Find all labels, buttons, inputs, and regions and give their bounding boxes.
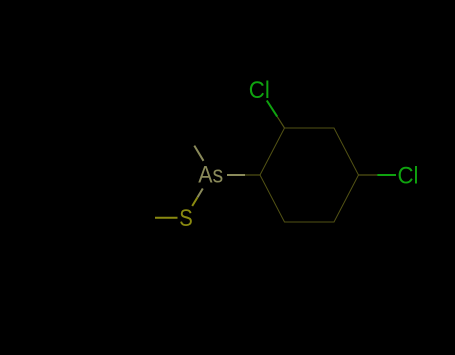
svg-text:As: As	[198, 162, 223, 189]
svg-text:Cl: Cl	[249, 77, 270, 104]
svg-text:S: S	[179, 205, 193, 232]
svg-text:Cl: Cl	[398, 163, 419, 190]
